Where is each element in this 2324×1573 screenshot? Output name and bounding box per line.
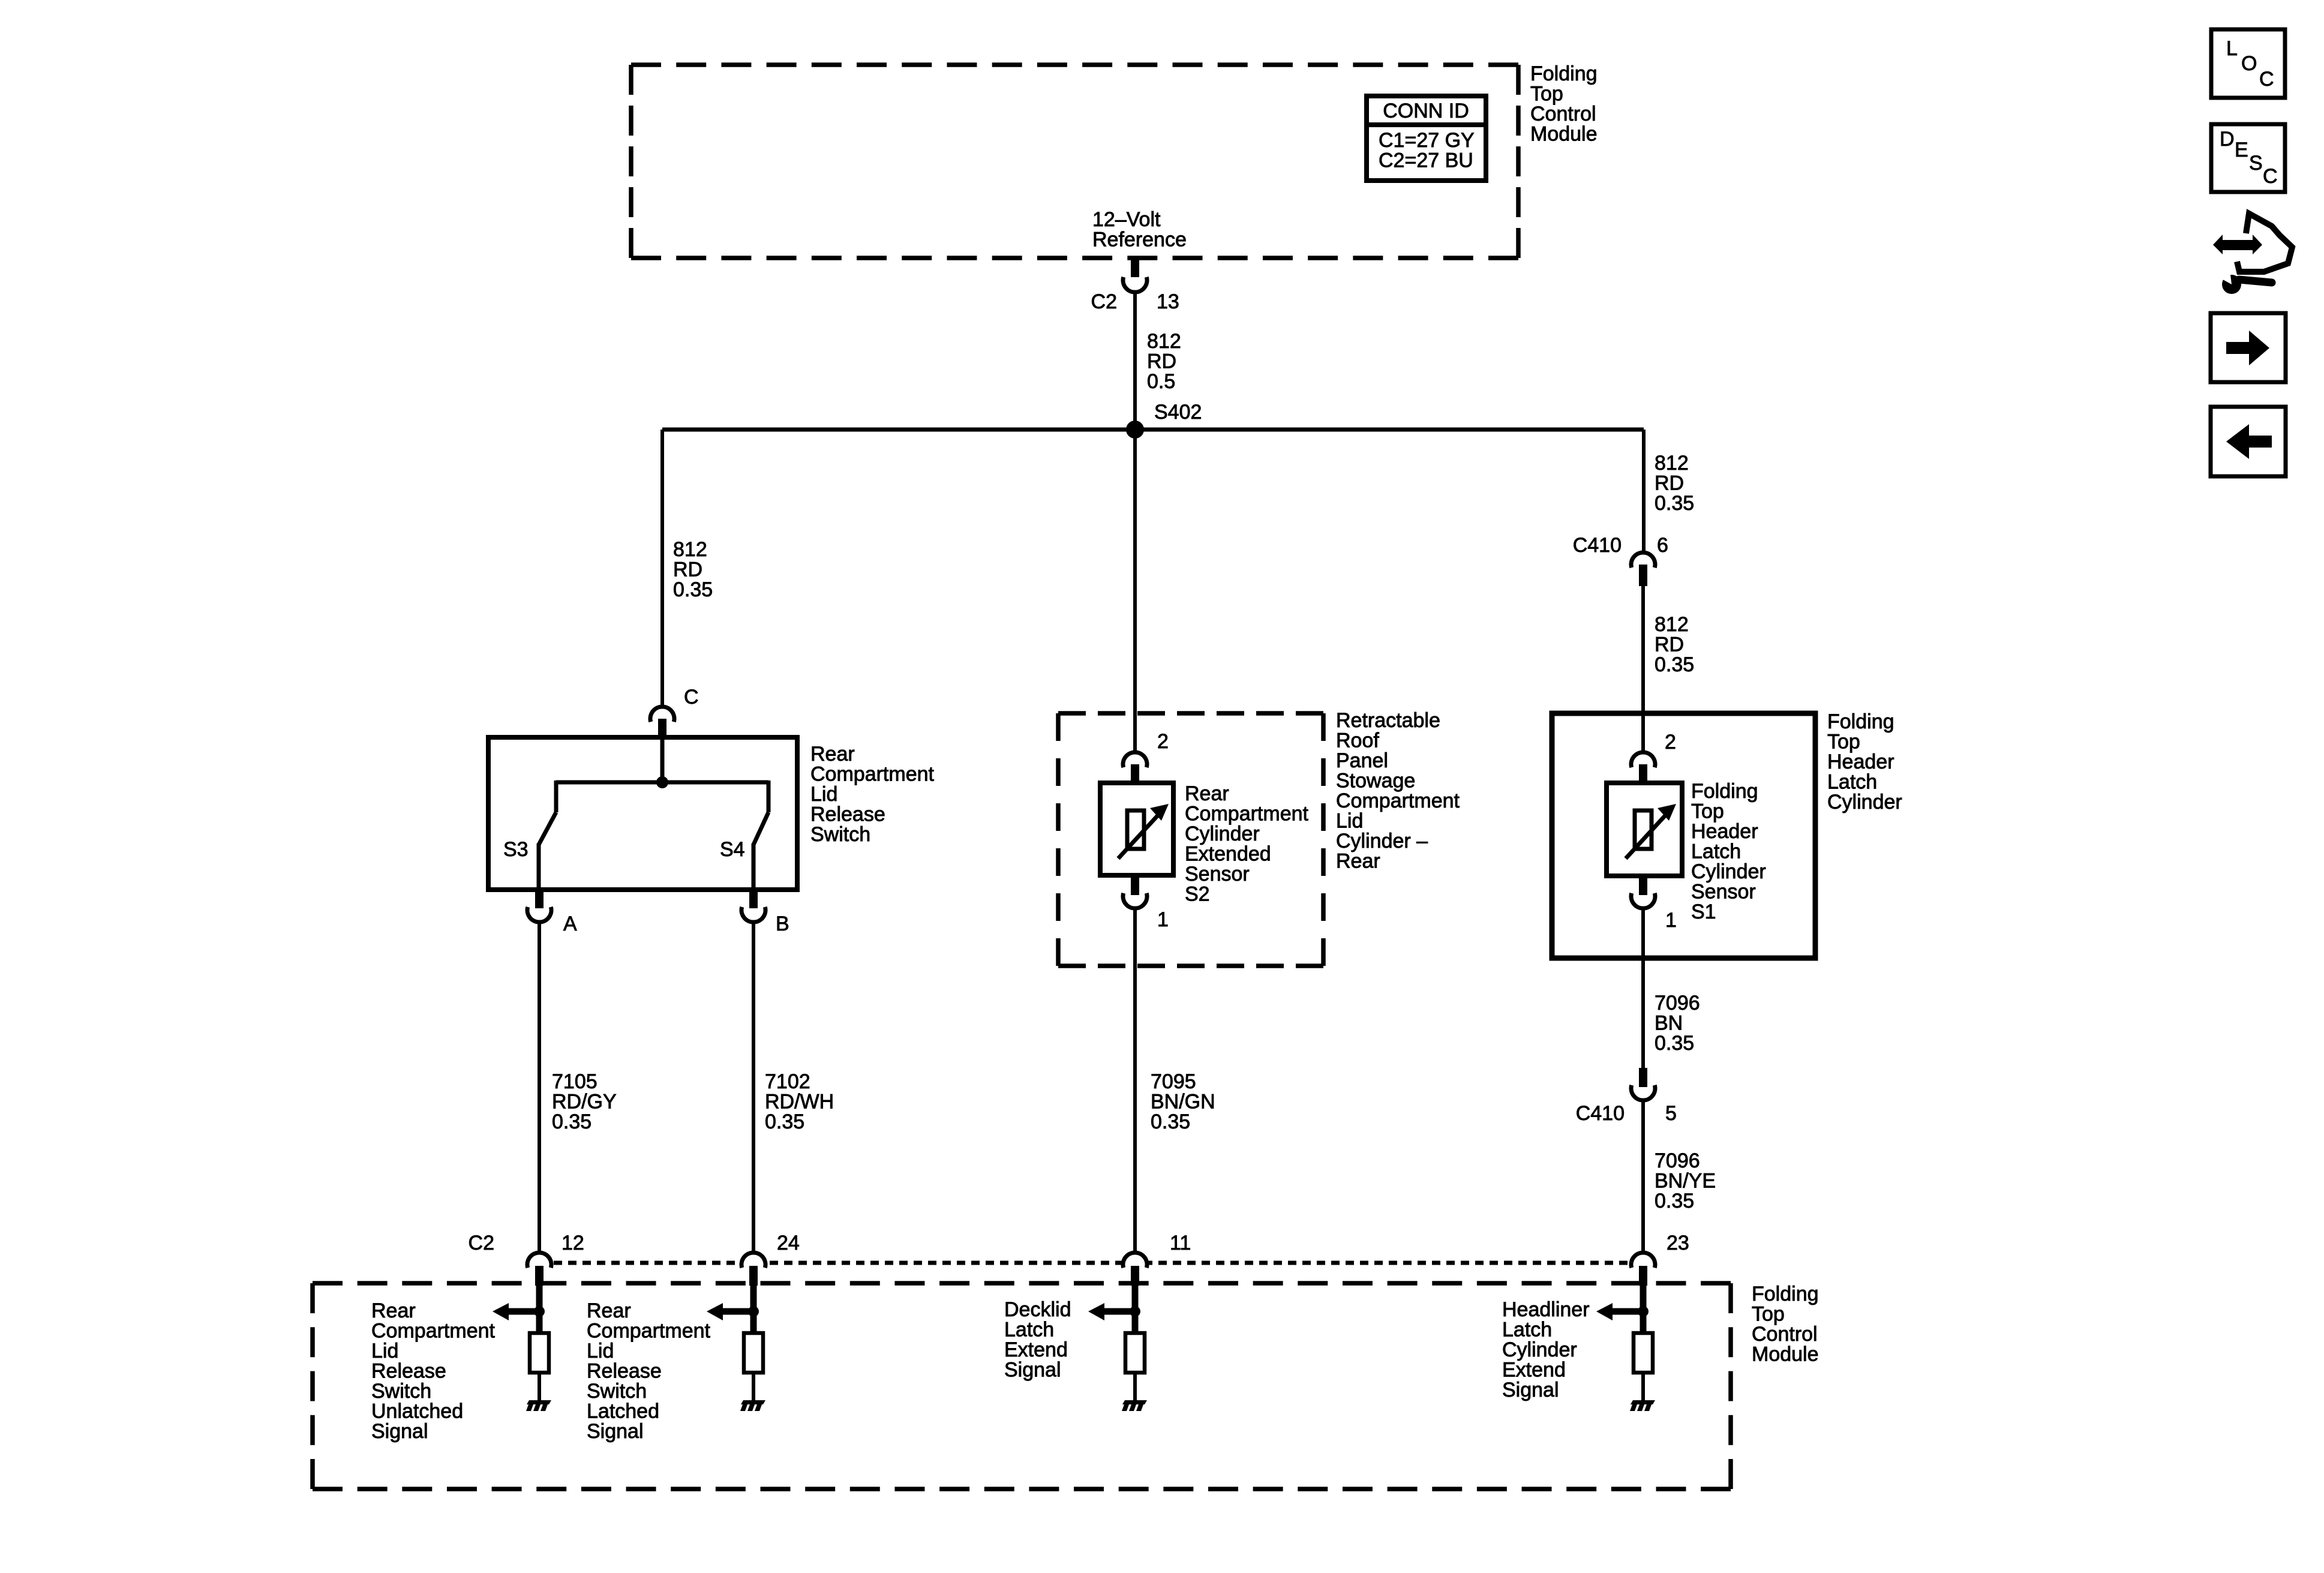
svg-text:Signal: Signal: [587, 1420, 644, 1443]
svg-text:Compartment: Compartment: [810, 763, 935, 786]
svg-text:Control: Control: [1752, 1323, 1818, 1346]
svg-text:7105: 7105: [552, 1070, 597, 1093]
svg-text:Panel: Panel: [1336, 749, 1388, 772]
svg-text:Rear: Rear: [1336, 850, 1380, 873]
svg-text:C410: C410: [1576, 1102, 1625, 1125]
svg-text:S402: S402: [1154, 401, 1202, 424]
svg-text:812: 812: [1655, 613, 1689, 636]
svg-text:5: 5: [1665, 1102, 1677, 1125]
svg-text:Module: Module: [1752, 1343, 1819, 1366]
svg-text:Stowage: Stowage: [1336, 770, 1415, 792]
svg-text:Compartment: Compartment: [371, 1320, 496, 1343]
svg-text:0.35: 0.35: [765, 1110, 804, 1133]
svg-text:B: B: [776, 912, 789, 935]
svg-text:Headliner: Headliner: [1502, 1298, 1590, 1321]
svg-text:Switch: Switch: [371, 1380, 431, 1403]
svg-text:Sensor: Sensor: [1185, 863, 1250, 885]
svg-text:Latch: Latch: [1502, 1319, 1552, 1341]
svg-text:Rear: Rear: [587, 1299, 631, 1322]
svg-text:Unlatched: Unlatched: [371, 1400, 463, 1423]
svg-text:Top: Top: [1827, 731, 1860, 754]
svg-text:7095: 7095: [1151, 1070, 1196, 1093]
svg-text:S3: S3: [503, 838, 529, 861]
svg-text:Top: Top: [1752, 1303, 1785, 1326]
svg-text:RD/GY: RD/GY: [552, 1091, 617, 1113]
svg-text:Sensor: Sensor: [1691, 881, 1756, 903]
svg-text:0.35: 0.35: [1655, 653, 1694, 676]
svg-text:RD: RD: [673, 559, 702, 581]
svg-text:2: 2: [1157, 730, 1169, 753]
svg-text:C1=27 GY: C1=27 GY: [1379, 129, 1475, 152]
svg-text:O: O: [2241, 52, 2257, 75]
svg-text:2: 2: [1665, 731, 1676, 754]
svg-text:0.35: 0.35: [673, 578, 713, 601]
svg-text:Switch: Switch: [587, 1380, 647, 1403]
svg-text:1: 1: [1157, 908, 1169, 931]
svg-text:Signal: Signal: [371, 1420, 428, 1443]
svg-text:Cylinder: Cylinder: [1691, 860, 1766, 883]
svg-text:812: 812: [673, 538, 707, 561]
svg-text:Top: Top: [1691, 800, 1724, 823]
svg-text:Cylinder: Cylinder: [1185, 822, 1260, 845]
svg-text:Switch: Switch: [810, 823, 870, 846]
svg-text:Signal: Signal: [1502, 1379, 1559, 1401]
svg-text:Retractable: Retractable: [1336, 709, 1440, 732]
svg-text:7096: 7096: [1655, 1149, 1700, 1172]
svg-text:Compartment: Compartment: [1336, 789, 1460, 812]
svg-text:Rear: Rear: [371, 1299, 416, 1322]
svg-text:7102: 7102: [765, 1070, 810, 1093]
svg-text:24: 24: [777, 1232, 800, 1254]
svg-text:Extend: Extend: [1004, 1338, 1068, 1361]
svg-text:0.35: 0.35: [1655, 492, 1694, 515]
svg-text:7096: 7096: [1655, 992, 1700, 1014]
svg-text:Rear: Rear: [810, 743, 855, 766]
svg-text:Header: Header: [1691, 820, 1758, 843]
svg-text:C: C: [684, 686, 699, 709]
svg-text:0.35: 0.35: [1151, 1110, 1190, 1133]
svg-text:Compartment: Compartment: [1185, 803, 1309, 825]
svg-text:CONN ID: CONN ID: [1383, 100, 1469, 122]
svg-text:12: 12: [562, 1232, 584, 1254]
svg-text:C2=27 BU: C2=27 BU: [1379, 149, 1473, 172]
svg-text:Release: Release: [587, 1360, 662, 1383]
svg-text:Compartment: Compartment: [587, 1320, 711, 1343]
svg-text:0.35: 0.35: [1655, 1190, 1694, 1212]
svg-text:Folding: Folding: [1691, 780, 1758, 803]
svg-text:Folding: Folding: [1752, 1283, 1819, 1305]
svg-text:A: A: [563, 912, 577, 935]
svg-text:Latch: Latch: [1004, 1319, 1054, 1341]
svg-text:0.35: 0.35: [1655, 1032, 1694, 1055]
svg-text:812: 812: [1147, 330, 1181, 353]
svg-text:Control: Control: [1530, 103, 1596, 125]
svg-text:Top: Top: [1530, 83, 1563, 106]
svg-text:Header: Header: [1827, 751, 1894, 773]
svg-text:Lid: Lid: [371, 1340, 398, 1362]
svg-text:Lid: Lid: [587, 1340, 614, 1362]
svg-text:Signal: Signal: [1004, 1359, 1061, 1382]
svg-text:Lid: Lid: [1336, 810, 1363, 833]
svg-text:C2: C2: [469, 1232, 494, 1254]
svg-text:Lid: Lid: [810, 783, 837, 806]
svg-text:L: L: [2226, 37, 2238, 60]
svg-text:812: 812: [1655, 452, 1689, 475]
svg-text:Latched: Latched: [587, 1400, 659, 1423]
svg-text:C410: C410: [1573, 534, 1622, 557]
svg-text:Extended: Extended: [1185, 843, 1271, 866]
svg-text:Decklid: Decklid: [1004, 1298, 1071, 1321]
svg-text:Cylinder: Cylinder: [1502, 1338, 1577, 1361]
svg-text:C: C: [2259, 68, 2274, 91]
svg-text:RD/WH: RD/WH: [765, 1091, 834, 1113]
svg-text:RD: RD: [1655, 472, 1684, 495]
svg-text:S: S: [2249, 152, 2263, 175]
svg-text:Reference: Reference: [1092, 229, 1187, 251]
svg-text:S1: S1: [1691, 900, 1716, 923]
svg-text:Release: Release: [810, 803, 885, 826]
svg-text:Cylinder: Cylinder: [1827, 791, 1902, 813]
svg-text:1: 1: [1665, 909, 1677, 932]
svg-text:Latch: Latch: [1827, 771, 1877, 794]
svg-text:Cylinder –: Cylinder –: [1336, 830, 1428, 852]
svg-text:E: E: [2235, 139, 2248, 161]
svg-text:RD: RD: [1147, 350, 1176, 373]
svg-text:Folding: Folding: [1530, 62, 1598, 85]
svg-text:RD: RD: [1655, 634, 1684, 656]
svg-text:S4: S4: [720, 838, 745, 861]
svg-text:BN/YE: BN/YE: [1655, 1170, 1716, 1193]
svg-text:Roof: Roof: [1336, 730, 1379, 752]
svg-text:Latch: Latch: [1691, 840, 1741, 863]
svg-text:0.5: 0.5: [1147, 370, 1175, 393]
svg-text:D: D: [2220, 128, 2235, 151]
svg-text:13: 13: [1157, 290, 1179, 313]
svg-text:Module: Module: [1530, 123, 1598, 146]
svg-text:12–Volt: 12–Volt: [1092, 208, 1161, 231]
svg-text:S2: S2: [1185, 883, 1210, 906]
svg-text:C2: C2: [1091, 290, 1117, 313]
svg-text:BN: BN: [1655, 1012, 1683, 1035]
svg-text:Extend: Extend: [1502, 1359, 1566, 1382]
svg-text:0.35: 0.35: [552, 1110, 591, 1133]
svg-text:Folding: Folding: [1827, 710, 1894, 733]
svg-text:11: 11: [1170, 1232, 1191, 1254]
svg-text:C: C: [2263, 165, 2278, 188]
svg-text:6: 6: [1657, 534, 1668, 557]
svg-text:BN/GN: BN/GN: [1151, 1091, 1215, 1113]
svg-text:23: 23: [1667, 1232, 1689, 1254]
svg-text:Rear: Rear: [1185, 782, 1229, 805]
svg-text:Release: Release: [371, 1360, 446, 1383]
